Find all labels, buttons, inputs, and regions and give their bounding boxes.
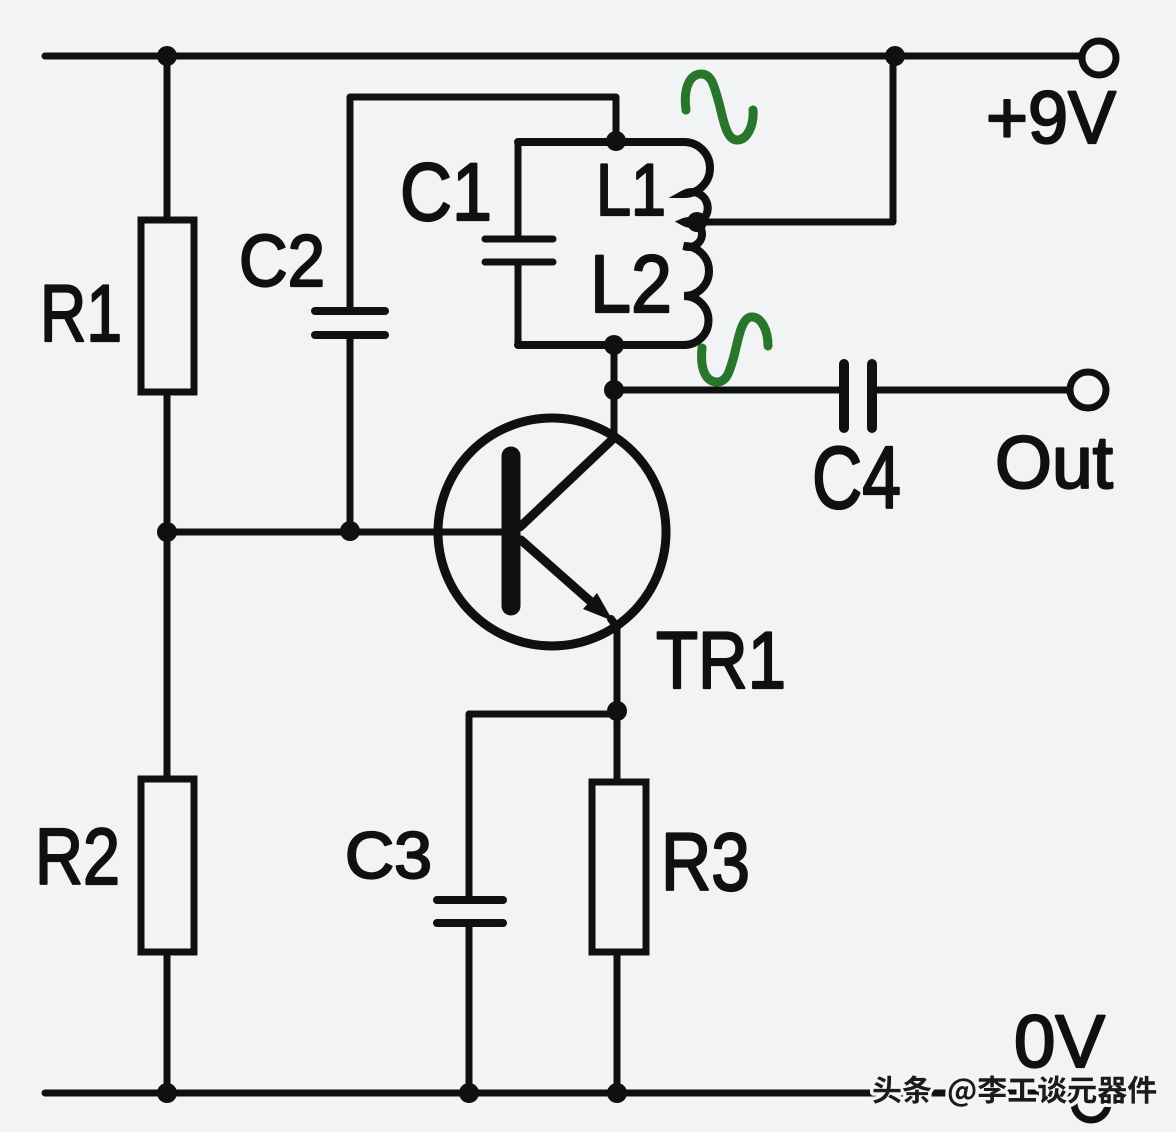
node divider junction bbox=[157, 522, 177, 542]
svg-text:L1: L1 bbox=[596, 150, 666, 231]
inductor L1 L2 coil with tank top and bottom wires bbox=[518, 142, 710, 345]
svg-text:R1: R1 bbox=[40, 269, 122, 359]
svg-text:C3: C3 bbox=[345, 818, 432, 892]
svg-text:C1: C1 bbox=[400, 147, 492, 238]
wire coil tap to +9V rail bbox=[690, 60, 893, 222]
node tap junction bbox=[687, 212, 707, 232]
node C2 bottom junction bbox=[340, 521, 360, 541]
capacitor C1 (tank left branch) bbox=[485, 142, 553, 345]
svg-text:L2: L2 bbox=[590, 239, 672, 330]
signal sine bottom (green) bbox=[702, 317, 768, 382]
node top rail junction at R1 bbox=[157, 46, 177, 66]
capacitor C2 bbox=[315, 97, 616, 532]
svg-text:0V: 0V bbox=[1014, 1000, 1106, 1083]
node tank top junction bbox=[606, 131, 626, 151]
node output junction bbox=[604, 380, 624, 400]
wire C4 to Out terminal bbox=[877, 387, 1071, 394]
node emitter junction bbox=[607, 701, 627, 721]
svg-text:R2: R2 bbox=[35, 812, 120, 901]
capacitor C4 bbox=[844, 364, 872, 428]
wire output to C4 bbox=[614, 387, 839, 394]
node bottom rail junction at R2 bbox=[157, 1083, 177, 1103]
svg-text:TR1: TR1 bbox=[656, 616, 786, 706]
capacitor C3 bbox=[437, 900, 503, 1093]
wire tank bottom to collector bbox=[611, 345, 618, 437]
signal sine top (green) bbox=[685, 74, 753, 140]
node top rail junction at tap riser bbox=[885, 46, 905, 66]
node bottom rail junction at R3 bbox=[607, 1083, 627, 1103]
wire +9V top rail bbox=[45, 53, 1082, 60]
terminal 0V bbox=[1074, 1086, 1108, 1120]
svg-text:+9V: +9V bbox=[986, 76, 1117, 159]
svg-text:R3: R3 bbox=[661, 817, 750, 908]
wire base wire from divider to transistor bbox=[167, 529, 505, 536]
terminal Out bbox=[1070, 372, 1106, 408]
resistor R3 bbox=[592, 714, 646, 1093]
node bottom rail junction at C3 bbox=[459, 1083, 479, 1103]
transistor TR1 bbox=[438, 418, 666, 646]
wire emitter down bbox=[614, 627, 621, 714]
wire bottom 0V rail bbox=[45, 1090, 1080, 1097]
resistor R1 bbox=[141, 56, 194, 532]
svg-text:Out: Out bbox=[995, 421, 1113, 504]
wire emitter junction to C3 bbox=[469, 714, 617, 896]
svg-text:C4: C4 bbox=[812, 428, 901, 527]
terminal +9V bbox=[1082, 41, 1116, 75]
watermark bbox=[873, 1075, 1156, 1106]
svg-text:C2: C2 bbox=[239, 221, 325, 302]
resistor R2 bbox=[141, 532, 194, 1093]
node tank bottom junction bbox=[604, 335, 624, 355]
